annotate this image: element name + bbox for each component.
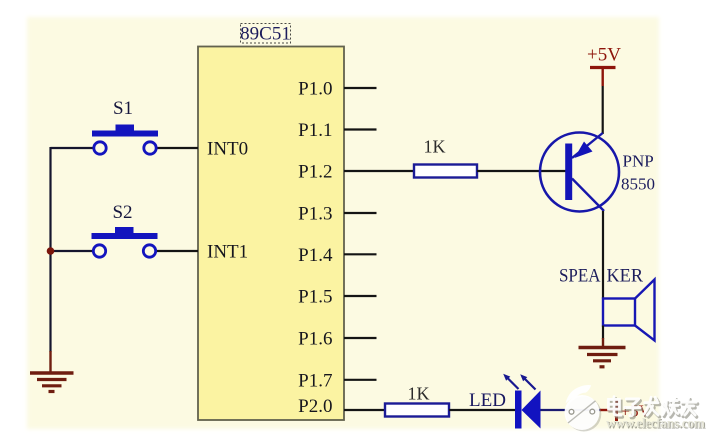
ground GND speaker — [579, 348, 626, 367]
svg-text:P1.0: P1.0 — [298, 79, 332, 100]
svg-text:LED: LED — [469, 390, 506, 411]
power +5V top — [587, 45, 621, 87]
wire left rail to S2 left terminal — [51, 250, 94, 252]
pin P1.1 — [298, 120, 376, 141]
power +5V at LED — [600, 400, 652, 421]
pin P1.0 — [298, 79, 376, 100]
transistor Q1 PNP 8550 — [540, 133, 655, 212]
chip U1 89C51 body — [198, 47, 344, 421]
ground GND left — [30, 373, 74, 392]
wire LED to +5V — [541, 409, 602, 411]
pin P2.0 — [298, 396, 385, 417]
speaker LS1 — [603, 280, 655, 341]
pin P1.7 — [298, 370, 376, 391]
resistor R2 1K — [385, 384, 449, 417]
svg-text:1K: 1K — [424, 137, 446, 157]
wire R1 to Q1 base — [477, 170, 566, 172]
svg-text:P1.2: P1.2 — [298, 162, 332, 183]
pin P1.5 — [298, 287, 376, 308]
wire R2 to LED — [449, 409, 515, 411]
svg-text:P1.3: P1.3 — [298, 204, 332, 225]
wire Q1 collector to speaker — [602, 211, 604, 299]
svg-text:SPEA: SPEA — [559, 266, 601, 287]
pushbutton S2 — [92, 202, 158, 257]
svg-text:+5V: +5V — [587, 45, 621, 66]
pin P1.4 — [298, 245, 376, 266]
wire rail lower maroon segment — [49, 351, 51, 372]
svg-text:8550: 8550 — [621, 175, 655, 194]
svg-text:P1.5: P1.5 — [298, 287, 332, 308]
watermark logo circle — [565, 385, 602, 431]
svg-text:1K: 1K — [408, 384, 430, 404]
svg-text:S1: S1 — [113, 98, 133, 119]
svg-text:INT0: INT0 — [207, 139, 248, 160]
svg-text:P1.1: P1.1 — [298, 120, 332, 141]
wire speaker to ground — [602, 326, 604, 348]
pin INT1 — [156, 242, 248, 263]
svg-text:P2.0: P2.0 — [298, 396, 332, 417]
svg-text:PNP: PNP — [623, 152, 654, 171]
svg-text:P1.4: P1.4 — [298, 245, 333, 266]
wire left rail to S1 left terminal — [51, 147, 95, 149]
svg-text:S2: S2 — [112, 202, 132, 223]
pin INT0 — [157, 139, 248, 160]
wire +5V to Q1 emitter — [602, 86, 604, 134]
chip U1 designator label 89C51 — [240, 24, 291, 45]
pin P1.3 — [298, 204, 376, 225]
label SPEAKER — [559, 266, 643, 287]
svg-text:KER: KER — [607, 266, 644, 287]
wire left rail vertical — [49, 147, 51, 352]
junction node S2/rail — [47, 247, 55, 255]
pushbutton S1 — [92, 98, 158, 154]
svg-text:89C51: 89C51 — [240, 24, 291, 45]
pin P1.6 — [298, 329, 376, 350]
watermark chinese characters — [609, 397, 698, 418]
LED D1 — [469, 374, 541, 429]
svg-text:www.elecfans.com: www.elecfans.com — [606, 416, 705, 431]
svg-text:P1.7: P1.7 — [298, 370, 332, 391]
pin P1.2 — [298, 162, 414, 183]
svg-text:P1.6: P1.6 — [298, 329, 332, 350]
watermark url text — [606, 416, 706, 432]
svg-text:INT1: INT1 — [207, 242, 248, 263]
resistor R1 1K — [414, 137, 477, 178]
